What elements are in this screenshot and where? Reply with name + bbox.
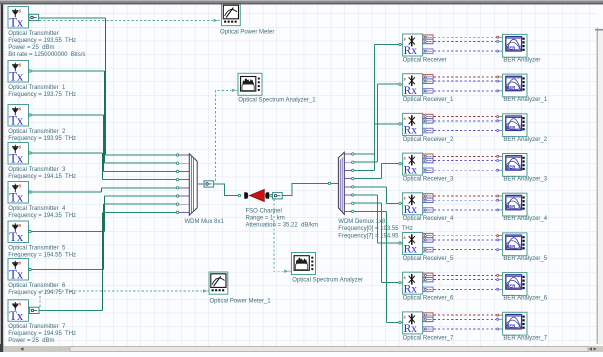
optical transmitter Tx6 (8, 221, 29, 244)
optical receiver Rx1 (403, 34, 423, 57)
wire Rx8 to BER7 dashed middle (434, 318, 497, 320)
label Tx8 parameters (8, 324, 76, 344)
svg-text:Rx: Rx (404, 45, 418, 57)
svg-text:Attenuation = 35.22 dB/km: Attenuation = 35.22 dB/km (246, 223, 319, 229)
port mux input 2 (176, 162, 178, 164)
BER7 input port 3 (497, 328, 499, 330)
BER6 input port 2 (497, 279, 499, 281)
optical spectrum analyzer OSA1 (238, 73, 262, 95)
wire Rx1 input stub (401, 44, 402, 46)
wire wire into Rx6 (378, 242, 399, 244)
svg-text:BER Analyzer_1: BER Analyzer_1 (503, 97, 547, 103)
input arrow Optical Power Meter_1 (203, 289, 207, 292)
svg-text:Optical Receiver_4: Optical Receiver_4 (403, 216, 454, 222)
wire demux output stub 3 (344, 169, 351, 171)
BER6 input port 1 (497, 274, 499, 276)
wire Rx3 to BER2 dashed upper (434, 116, 497, 118)
BER5 input port 3 (497, 249, 499, 251)
label Tx5 parameters (8, 206, 76, 219)
wire Rx1 to BER0 dashed lower (434, 50, 497, 52)
BER analyzer BER3 (503, 154, 527, 177)
svg-text:s: s (18, 259, 22, 266)
svg-text:s: s (403, 195, 406, 201)
svg-text:Optical Receiver_3: Optical Receiver_3 (403, 177, 454, 183)
port Tx7 output (29, 268, 31, 270)
port Tx3 output (29, 114, 31, 116)
wire Rx4 to BER3 dashed middle (434, 160, 497, 162)
label Tx1 parameters (8, 31, 85, 58)
right splitter line (597, 28, 603, 345)
svg-text:s: s (403, 275, 406, 281)
wire demux output stub 8 (344, 210, 351, 212)
FSO channel U2 (244, 189, 269, 201)
label Tx2 parameters (8, 85, 76, 98)
svg-text:Optical Transmitter 7: Optical Transmitter 7 (8, 324, 66, 330)
wire Rx5 to BER4 dashed lower (434, 209, 497, 211)
wire demux output stub 1 (344, 153, 351, 155)
BER7 input port 2 (497, 318, 499, 320)
port demux output 6 (352, 194, 354, 196)
label Tx7 parameters (8, 283, 76, 296)
wire FSO output to WDM demux input (282, 183, 328, 195)
wire wire into Rx4 (382, 163, 399, 165)
fork connector F2 at Tx8 output (29, 307, 39, 313)
svg-text:BER: BER (506, 165, 515, 170)
BER3 input port 2 (497, 160, 499, 162)
output connector pin 2 of Rx3 (423, 119, 433, 124)
wire Tx7 riser (103, 204, 105, 269)
input arrow Optical Spectrum Analyzer (284, 270, 288, 273)
WDM Mux 8x1 U1 (189, 154, 197, 215)
port demux output 4 (352, 177, 354, 179)
port mux input 1 (176, 154, 178, 156)
wire Tx5 to mux input 5 (102, 187, 177, 189)
port Rx2 input (399, 83, 401, 85)
optical transmitter Tx1 (8, 7, 29, 30)
svg-text:BER: BER (506, 45, 515, 50)
wire demux output stub 2 (344, 161, 351, 163)
wire riser to Rx2 (377, 84, 379, 162)
svg-text:FSO Channel: FSO Channel (246, 209, 282, 215)
BER analyzer BER1 (503, 74, 527, 97)
wire Tx4 output horizontal (31, 152, 102, 154)
BER7 input port 1 (497, 314, 499, 316)
BER2 input port 1 (497, 116, 499, 118)
optical receiver Rx6 (403, 233, 423, 256)
svg-text:Optical Transmitter 4: Optical Transmitter 4 (8, 206, 66, 212)
wire Rx8 to BER7 dashed lower (434, 328, 497, 330)
wire Tx4 to mux input 4 (103, 179, 177, 181)
wire demux output stub 5 (344, 186, 351, 188)
svg-text:Power = 25 dBm: Power = 25 dBm (8, 338, 54, 344)
wire Tx8 fork to Optical Power Meter_1 (dashed) (40, 291, 202, 307)
port FSO output (270, 194, 272, 196)
wire riser to Rx5 (386, 187, 388, 204)
svg-text:Frequency = 194.95 THz: Frequency = 194.95 THz (8, 331, 76, 337)
wire Rx2 to BER1 dashed upper (434, 76, 497, 78)
svg-text:WDM Mux 8x1: WDM Mux 8x1 (185, 219, 225, 225)
wire demux output stub 4 (344, 178, 351, 180)
svg-text:Tx: Tx (9, 230, 24, 244)
wire Tx1 to mux input 1 (106, 154, 177, 156)
output connector pin 3 of Rx4 (423, 168, 433, 173)
optical receiver Rx5 (403, 193, 423, 216)
wire mux input stub 2 (179, 162, 190, 164)
svg-text:BER Analyzer: BER Analyzer (503, 57, 540, 63)
svg-text:Optical Transmitter 5: Optical Transmitter 5 (8, 245, 66, 251)
svg-text:Tx: Tx (9, 268, 24, 282)
wire demux output 4 horizontal (354, 178, 382, 180)
wire wire into Rx7 (382, 282, 399, 284)
port FSO input (238, 194, 240, 196)
svg-text:s: s (403, 156, 406, 162)
port mux input 5 (176, 187, 178, 189)
svg-text:Optical Spectrum Analyzer_1: Optical Spectrum Analyzer_1 (238, 98, 316, 104)
BER analyzer BER0 (503, 34, 527, 57)
port mux input 8 (176, 211, 178, 213)
window left border (0, 4, 1, 348)
svg-text:BER Analyzer_7: BER Analyzer_7 (503, 335, 547, 341)
svg-text:s: s (403, 37, 406, 43)
port demux output 5 (352, 186, 354, 188)
label WDM Demux 1x8 parameters (338, 219, 412, 240)
output connector pin 3 of Rx8 (423, 327, 433, 332)
wire Tx3 output horizontal (31, 114, 103, 116)
svg-text:BER Analyzer_5: BER Analyzer_5 (503, 256, 547, 262)
optical receiver Rx7 (403, 272, 423, 295)
wire mux input stub 1 (179, 154, 190, 156)
wire mux input stub 3 (179, 170, 190, 172)
svg-text:Optical Power Meter: Optical Power Meter (220, 29, 274, 35)
port mux input 4 (176, 178, 178, 180)
port Rx1 input (399, 43, 401, 45)
label Tx6 parameters (8, 245, 76, 258)
svg-text:Rx: Rx (404, 244, 418, 256)
svg-text:Rx: Rx (404, 85, 418, 97)
output connector pin 1 of Rx5 (423, 194, 433, 199)
output connector pin 3 of Rx7 (423, 287, 433, 292)
wire wire into Rx3 (375, 123, 399, 125)
fork connector F4 at FSO output (273, 193, 283, 199)
svg-text:Rx: Rx (404, 283, 418, 295)
BER3 input port 3 (497, 169, 499, 171)
optical transmitter Tx8 (8, 300, 29, 323)
svg-text:BER: BER (506, 85, 515, 90)
wire Tx5 riser (101, 188, 103, 192)
optical transmitter Tx2 (8, 61, 29, 84)
wire Rx8 input stub (401, 321, 402, 323)
wire demux output 2 horizontal (354, 161, 378, 163)
port Tx6 output (29, 230, 31, 232)
wire Rx6 to BER5 dashed middle (434, 239, 497, 241)
wire demux output 7 horizontal (354, 202, 382, 204)
optical transmitter Tx4 (8, 143, 29, 166)
svg-text:Tx: Tx (9, 70, 24, 84)
BER6 input port 3 (497, 288, 499, 290)
svg-text:Rx: Rx (404, 323, 418, 335)
BER1 input port 1 (497, 76, 499, 78)
BER1 input port 3 (497, 90, 499, 92)
wire Tx1 fork to Optical Power Meter (dashed) (39, 19, 213, 21)
svg-text:Tx: Tx (9, 114, 24, 128)
svg-text:Tx: Tx (9, 191, 24, 205)
wire Tx3 to mux input 3 (104, 170, 177, 172)
port Rx5 input (399, 202, 401, 204)
wire wire into Rx2 (378, 83, 399, 85)
wire demux output 3 horizontal (354, 169, 375, 171)
wire Rx2 to BER1 dashed lower (434, 90, 497, 92)
BER1 input port 2 (497, 80, 499, 82)
port demux output 1 (352, 153, 354, 155)
output connector pin 2 of Rx5 (423, 198, 433, 203)
wire Tx2 to mux input 2 (105, 162, 177, 164)
svg-text:Bit rate = 1250000000 Bits/s: Bit rate = 1250000000 Bits/s (8, 52, 85, 58)
wire Rx6 to BER5 dashed lower (434, 249, 497, 251)
svg-text:s: s (18, 182, 22, 189)
svg-text:s: s (18, 61, 22, 68)
output connector pin 1 of Rx3 (423, 114, 433, 119)
svg-text:Frequency = 193.75 THz: Frequency = 193.75 THz (8, 92, 76, 98)
input arrow Optical Power Meter (214, 19, 218, 22)
wire mux input stub 5 (179, 187, 190, 189)
wire Rx5 input stub (401, 202, 402, 204)
wire demux output stub 6 (344, 194, 351, 196)
port demux output 8 (352, 210, 354, 212)
label Tx3 parameters (8, 129, 76, 142)
svg-text:BER Analyzer_2: BER Analyzer_2 (503, 137, 547, 143)
svg-text:s: s (18, 222, 22, 229)
svg-text:BER: BER (506, 284, 515, 289)
BER0 input port 1 (497, 36, 499, 38)
port Rx4 input (399, 162, 401, 164)
wire Rx7 input stub (401, 282, 402, 284)
svg-text:BER: BER (506, 244, 515, 249)
svg-text:Frequency = 193.55 THz: Frequency = 193.55 THz (8, 38, 76, 44)
wire Tx1 output horizontal (39, 17, 106, 19)
optical transmitter Tx7 (8, 259, 29, 282)
wire riser to Rx3 (374, 124, 376, 170)
svg-text:BER: BER (506, 204, 515, 209)
wire riser to Rx6 (377, 195, 379, 243)
svg-text:Optical Transmitter 6: Optical Transmitter 6 (8, 283, 66, 289)
wire Rx2 input stub (401, 83, 402, 85)
svg-text:BER: BER (506, 125, 515, 130)
svg-text:Optical Power Meter_1: Optical Power Meter_1 (210, 298, 272, 304)
BER analyzer BER5 (503, 233, 527, 256)
output connector pin 1 of Rx8 (423, 313, 433, 318)
optical spectrum analyzer OSA2 (292, 253, 316, 275)
svg-text:s: s (18, 301, 22, 308)
output connector pin 1 of Rx2 (423, 75, 433, 80)
BER5 input port 2 (497, 239, 499, 241)
fork connector F3 at mux output (204, 181, 214, 187)
svg-text:Rx: Rx (404, 125, 418, 137)
svg-text:Rx: Rx (404, 204, 418, 216)
optical power meter PM1 (222, 3, 241, 25)
wire riser to Rx4 (381, 164, 383, 179)
svg-text:Frequency = 194.55 THz: Frequency = 194.55 THz (8, 252, 76, 258)
svg-text:Optical Transmitter 3: Optical Transmitter 3 (8, 167, 66, 173)
svg-text:Optical Transmitter: Optical Transmitter (8, 31, 58, 37)
svg-text:s: s (403, 315, 406, 321)
wire Tx3 riser (103, 115, 105, 171)
svg-text:Frequency[7] = 194.95 THz: Frequency[7] = 194.95 THz (338, 233, 412, 239)
BER2 input port 3 (497, 130, 499, 132)
output connector pin 2 of Rx8 (423, 317, 433, 322)
svg-text:Optical Transmitter 2: Optical Transmitter 2 (8, 129, 66, 135)
svg-text:Power = 25 dBm: Power = 25 dBm (8, 45, 54, 51)
bottom horizontal scrollbar (0, 346, 603, 352)
svg-text:Tx: Tx (9, 16, 24, 30)
optical receiver Rx3 (403, 113, 423, 136)
svg-text:s: s (18, 7, 22, 14)
wire Rx5 to BER4 dashed middle (434, 199, 497, 201)
BER2 input port 2 (497, 120, 499, 122)
BER analyzer BER6 (503, 273, 527, 296)
BER0 input port 3 (497, 50, 499, 52)
wire demux output 5 horizontal (354, 186, 387, 188)
BER4 input port 2 (497, 199, 499, 201)
svg-text:Tx: Tx (9, 152, 24, 166)
output connector pin 2 of Rx2 (423, 79, 433, 84)
port demux output 3 (352, 169, 354, 171)
svg-text:Optical Transmitter 1: Optical Transmitter 1 (8, 85, 66, 91)
wire Tx7 output horizontal (31, 269, 103, 271)
wire riser to Rx8 (386, 211, 388, 322)
output connector pin 3 of Rx1 (423, 49, 433, 54)
svg-text:s: s (18, 105, 22, 112)
WDM Demux 1x8 U3 (338, 152, 344, 214)
wire mux input stub 7 (179, 203, 190, 205)
optical receiver Rx8 (403, 312, 423, 335)
wire Tx6 output horizontal (31, 231, 104, 233)
wire Tx6 riser (104, 196, 106, 232)
input arrow Optical Spectrum Analyzer_1 (232, 89, 236, 92)
svg-text:Frequency = 194.35 THz: Frequency = 194.35 THz (8, 213, 76, 219)
wire Tx8 to mux input 8 (103, 211, 177, 213)
port Rx8 input (399, 321, 401, 323)
svg-text:Optical Receiver_6: Optical Receiver_6 (403, 296, 454, 302)
wire Rx5 to BER4 dashed upper (434, 195, 497, 197)
svg-text:Range = 1 km: Range = 1 km (246, 216, 285, 222)
wire Tx6 to mux input 6 (105, 195, 177, 197)
port Tx2 output (29, 70, 31, 72)
port demux output 7 (352, 202, 354, 204)
svg-text:Optical Spectrum Analyzer: Optical Spectrum Analyzer (292, 277, 363, 283)
port mux input 3 (176, 170, 178, 172)
svg-text:WDM Demux 1x8: WDM Demux 1x8 (338, 219, 386, 225)
output connector pin 2 of Rx6 (423, 238, 433, 243)
BER analyzer BER2 (503, 114, 527, 137)
wire Tx7 to mux input 7 (104, 203, 177, 205)
wire Rx3 to BER2 dashed middle (434, 120, 497, 122)
svg-text:BER: BER (506, 323, 515, 328)
port Rx3 input (399, 123, 401, 125)
wire mux input stub 4 (179, 179, 190, 181)
wire Rx1 to BER0 dashed middle (434, 40, 497, 42)
BER3 input port 1 (497, 155, 499, 157)
output connector pin 1 of Rx1 (423, 35, 433, 40)
wire Tx5 output horizontal (31, 191, 101, 193)
svg-text:BER Analyzer_6: BER Analyzer_6 (503, 296, 547, 302)
output connector pin 3 of Rx3 (423, 128, 433, 133)
wire Tx1 riser (105, 18, 107, 155)
wire Rx3 to BER2 dashed lower (434, 130, 497, 132)
port demux output 2 (352, 161, 354, 163)
output connector pin 1 of Rx6 (423, 233, 433, 238)
svg-text:BER Analyzer_3: BER Analyzer_3 (503, 177, 547, 183)
wire mux input stub 8 (179, 211, 190, 213)
wire mux output stub (197, 183, 204, 185)
wire Rx7 to BER6 dashed upper (434, 274, 497, 276)
wire Rx2 to BER1 dashed middle (434, 80, 497, 82)
port Rx6 input (399, 242, 401, 244)
BER0 input port 2 (497, 40, 499, 42)
optical power meter PM2 (209, 272, 228, 294)
output connector pin 1 of Rx4 (423, 154, 433, 159)
wire mux input stub 6 (179, 195, 190, 197)
wire Tx2 riser (104, 71, 106, 163)
port Rx7 input (399, 282, 401, 284)
fork connector F1 at Tx1 output (29, 14, 39, 20)
BER analyzer BER4 (503, 193, 527, 216)
wire demux output 8 horizontal (354, 210, 387, 212)
svg-text:Optical Receiver_5: Optical Receiver_5 (403, 256, 454, 262)
BER5 input port 1 (497, 235, 499, 237)
output connector pin 2 of Rx1 (423, 39, 433, 44)
wire Rx7 to BER6 dashed lower (434, 288, 497, 290)
optical transmitter Tx3 (8, 105, 29, 128)
wire Rx1 to BER0 dashed upper (434, 36, 497, 38)
wire Tx2 output horizontal (31, 70, 104, 72)
wire Rx3 input stub (401, 123, 402, 125)
optical transmitter Tx5 (8, 182, 29, 205)
output connector pin 3 of Rx2 (423, 89, 433, 94)
output connector pin 2 of Rx4 (423, 158, 433, 163)
wire demux output 1 horizontal (354, 153, 375, 155)
svg-text:Frequency = 194.15 THz: Frequency = 194.15 THz (8, 174, 76, 180)
optical receiver Rx4 (403, 153, 423, 176)
wire Rx4 to BER3 dashed upper (434, 155, 497, 157)
svg-text:Optical Receiver_2: Optical Receiver_2 (403, 137, 454, 143)
port mux input 7 (176, 203, 178, 205)
output connector pin 1 of Rx7 (423, 273, 433, 278)
wire Rx7 to BER6 dashed middle (434, 279, 497, 281)
svg-text:Optical Receiver_1: Optical Receiver_1 (403, 97, 454, 103)
wire demux output 6 horizontal (354, 194, 378, 196)
BER4 input port 3 (497, 209, 499, 211)
port mux input 6 (176, 195, 178, 197)
output connector pin 2 of Rx7 (423, 277, 433, 282)
BER analyzer BER7 (503, 312, 527, 335)
svg-text:s: s (403, 235, 406, 241)
svg-text:s: s (403, 116, 406, 122)
wire Tx8 riser (102, 212, 104, 310)
svg-text:s: s (403, 76, 406, 82)
wire mux fork to FSO input (214, 184, 239, 196)
wire wire into Rx1 (375, 44, 399, 46)
window top toolbar edge (0, 0, 603, 1)
port demux input (328, 182, 330, 184)
wire Rx6 to BER5 dashed upper (434, 235, 497, 237)
wire demux output stub 7 (344, 202, 351, 204)
svg-text:Rx: Rx (404, 164, 418, 176)
wire wire into Rx5 (387, 202, 399, 204)
svg-text:Tx: Tx (9, 309, 24, 323)
port Tx5 output (29, 191, 31, 193)
wire FSO fork to OSA_2 (dashed) (274, 199, 284, 271)
svg-text:Optical Receiver: Optical Receiver (403, 57, 447, 63)
